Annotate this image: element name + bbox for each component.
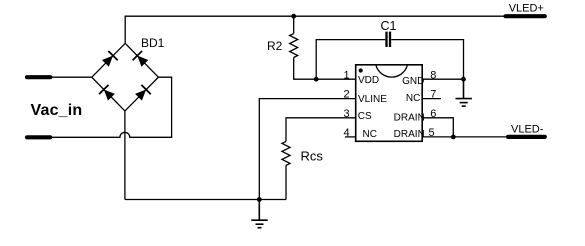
svg-text:5: 5 xyxy=(429,127,435,139)
wire R2 bottom to pin 1 xyxy=(294,58,356,80)
svg-text:NC: NC xyxy=(406,93,420,104)
terminal Vac_in bottom xyxy=(27,135,50,139)
svg-text:C1: C1 xyxy=(381,19,397,33)
svg-text:2: 2 xyxy=(344,89,350,101)
svg-text:3: 3 xyxy=(344,108,350,120)
wire pin 6 lead xyxy=(422,118,453,137)
resistor Rcs xyxy=(282,141,290,165)
wire pin 7 stub xyxy=(422,98,441,100)
svg-text:1: 1 xyxy=(344,69,350,81)
wire pin 2 branch xyxy=(259,99,355,200)
diode D1 top-left xyxy=(101,51,118,68)
node junction C1 pin1 xyxy=(314,77,319,82)
svg-text:VDD: VDD xyxy=(358,75,379,86)
diode D3 bottom-left xyxy=(99,85,116,102)
svg-text:VLED-: VLED- xyxy=(511,123,544,135)
wire bridge bottom vertical xyxy=(124,111,126,200)
wire R2 top lead xyxy=(293,16,295,33)
svg-text:DRAIN: DRAIN xyxy=(394,113,425,124)
wire bottom rail xyxy=(125,199,286,201)
svg-text:R2: R2 xyxy=(267,39,283,53)
wire pin 3 to Rcs xyxy=(286,118,356,142)
svg-text:8: 8 xyxy=(430,69,436,81)
svg-text:GND: GND xyxy=(402,76,424,87)
svg-text:NC: NC xyxy=(363,129,377,140)
op-amp U1 IC body xyxy=(356,65,423,142)
svg-text:BD1: BD1 xyxy=(141,36,165,50)
terminal VLED- xyxy=(508,135,545,139)
diode D4 bottom-right xyxy=(134,85,151,102)
svg-text:7: 7 xyxy=(430,89,436,101)
wire C1 right leg xyxy=(391,40,463,80)
ground right xyxy=(456,79,472,106)
svg-text:Vac_in: Vac_in xyxy=(31,102,83,119)
svg-text:CS: CS xyxy=(358,111,372,122)
wire pin 8 lead xyxy=(422,78,463,80)
wire pin 5 to VLED- xyxy=(422,136,506,138)
wire top AC input to bridge xyxy=(50,76,92,78)
svg-text:VLINE: VLINE xyxy=(358,94,387,105)
capacitor C1 xyxy=(387,32,391,47)
wire Rcs bottom lead xyxy=(285,165,287,199)
wire C1 left leg xyxy=(316,40,385,80)
wire bottom AC input with hop to bridge right vertex xyxy=(50,77,172,137)
terminal Vac_in top xyxy=(27,75,50,79)
resistor R2 xyxy=(290,34,298,58)
node junction pin8 ground xyxy=(461,77,466,82)
wire pin 4 stub xyxy=(345,136,356,138)
svg-text:Rcs: Rcs xyxy=(301,149,324,164)
svg-text:VLED+: VLED+ xyxy=(509,3,544,15)
ground left xyxy=(251,200,267,228)
diode D2 top-right xyxy=(133,51,150,68)
svg-text:DRAIN: DRAIN xyxy=(394,129,425,140)
diode bridge diamond BD1 outline xyxy=(92,43,159,111)
wire top rail from bridge top to VLED+ xyxy=(125,16,504,43)
svg-text:6: 6 xyxy=(430,108,436,120)
svg-text:4: 4 xyxy=(344,127,350,139)
terminal VLED+ xyxy=(506,14,545,18)
node junction bottom rail ground xyxy=(257,197,262,202)
node junction pin6 pin5 xyxy=(451,135,456,140)
node junction top rail R2 xyxy=(291,14,296,19)
